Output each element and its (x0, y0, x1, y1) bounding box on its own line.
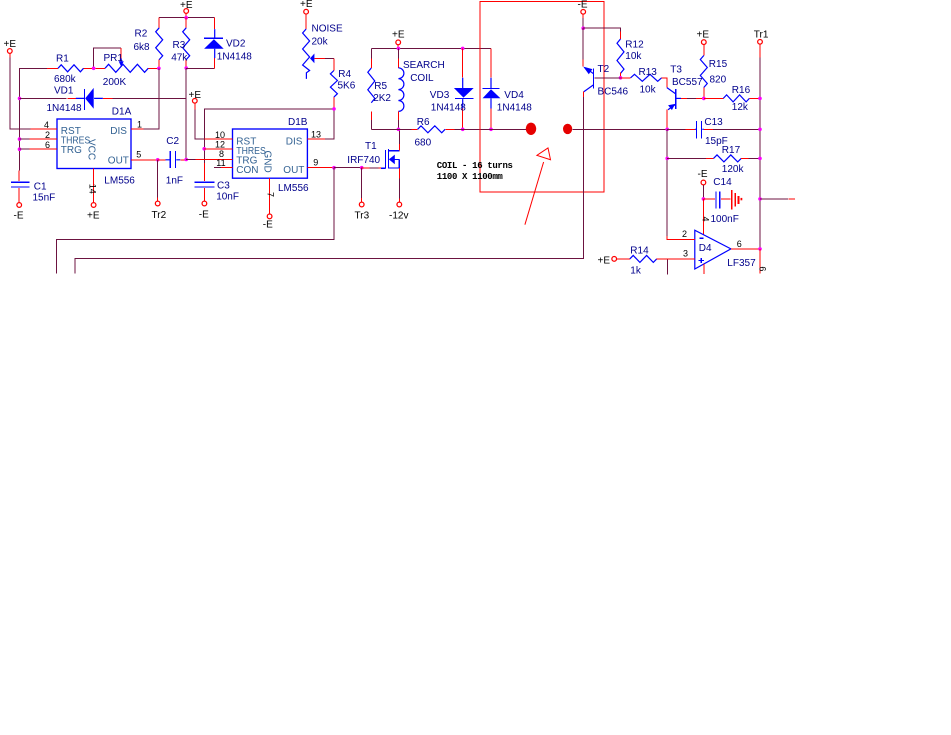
svg-text:T3: T3 (670, 65, 682, 76)
svg-text:+E: +E (4, 39, 17, 50)
wire +E to pin10 corner (195, 109, 204, 139)
wire R3 junction to VD2 (186, 67, 215, 69)
power terminal -E (C3) (199, 201, 209, 220)
wire op-amp V+ stub (703, 264, 705, 274)
pin 12 THRES lead (204, 139, 232, 149)
wire C13 line left (667, 128, 686, 130)
wire T2 collector down to bus2 (75, 92, 583, 274)
pin 6 TRG lead (20, 140, 58, 150)
op-amp D4 LF357 (695, 230, 756, 269)
svg-text:D1B: D1B (288, 117, 308, 128)
svg-text:1N4148: 1N4148 (47, 103, 82, 114)
svg-text:C14: C14 (713, 177, 732, 188)
wire -E to C14 junction (702, 185, 704, 199)
wire R1 left corner down THRES/TRG node (20, 68, 48, 170)
svg-text:+E: +E (300, 0, 313, 10)
svg-text:R13: R13 (639, 67, 658, 78)
pin 7 GND lead (265, 178, 275, 214)
capacitor C13 15pF (686, 117, 760, 147)
svg-text:1: 1 (137, 119, 142, 129)
svg-text:2: 2 (45, 130, 50, 140)
coil terminal dot A (526, 123, 536, 135)
node C14 line/Tr1 junction (758, 197, 762, 201)
node T1 gate/Tr3 junction (360, 166, 364, 170)
svg-text:6: 6 (45, 140, 50, 150)
svg-text:1N4148: 1N4148 (217, 51, 252, 62)
power terminal +E (top middle) (180, 0, 193, 13)
resistor R17 120k (667, 145, 760, 175)
transistor T1 IRF740 (347, 141, 399, 169)
svg-text:VCC: VCC (86, 139, 97, 160)
svg-text:2: 2 (682, 229, 687, 239)
svg-text:VD2: VD2 (226, 39, 246, 50)
wire +E stub to rail (185, 14, 187, 18)
wire T3 node down to R17 (666, 129, 668, 236)
node T3/coil/C13 junction (665, 128, 669, 132)
wire bus1 OUT9 down and left (56, 168, 334, 274)
svg-text:IRF740: IRF740 (347, 155, 380, 166)
svg-text:4: 4 (44, 120, 49, 130)
svg-text:5: 5 (136, 150, 141, 160)
svg-text:680k: 680k (54, 74, 77, 85)
resistor R16 12k (704, 85, 760, 113)
svg-text:DIS: DIS (286, 136, 303, 147)
svg-text:+E: +E (180, 0, 193, 11)
pin 10 RST lead (204, 130, 232, 140)
pin 11 CON lead (214, 158, 232, 168)
svg-text:R12: R12 (625, 39, 644, 50)
svg-text:C2: C2 (166, 136, 179, 147)
wire +E1 to pin4 (10, 58, 31, 130)
svg-text:R14: R14 (630, 245, 649, 256)
svg-text:Tr1: Tr1 (754, 30, 769, 41)
svg-text:OUT: OUT (283, 165, 304, 176)
svg-text:9: 9 (313, 158, 318, 168)
wire T1 source to -12v (398, 168, 400, 202)
diode VD1 1N4148 (20, 86, 187, 114)
terminal Tr3 (355, 202, 370, 221)
node pin12 junction (202, 147, 206, 151)
svg-text:VD4: VD4 (504, 90, 524, 101)
pin 1 DIS lead (131, 68, 159, 129)
svg-text:+E: +E (189, 90, 202, 101)
svg-text:Tr2: Tr2 (152, 210, 167, 221)
pin 8 TRG lead (186, 149, 232, 160)
wire -E to T2 emitter (582, 28, 584, 66)
svg-text:5K6: 5K6 (338, 81, 356, 92)
svg-text:+E: +E (598, 256, 611, 267)
svg-text:20k: 20k (312, 37, 329, 48)
svg-text:14: 14 (87, 184, 97, 194)
resistor R1 (47, 54, 94, 85)
svg-text:D1A: D1A (112, 107, 132, 118)
svg-text:200K: 200K (103, 77, 127, 88)
wire Tr3 red stub (361, 198, 363, 202)
wire pin3 stub down (667, 260, 669, 275)
svg-text:-E: -E (698, 169, 708, 180)
node R2/PR1/DIS junction (157, 67, 161, 71)
svg-text:1N4148: 1N4148 (497, 102, 532, 113)
inductor SEARCH COIL (398, 48, 444, 129)
svg-text:680: 680 (415, 137, 432, 148)
svg-text:-12v: -12v (389, 211, 408, 222)
svg-text:T1: T1 (365, 141, 377, 152)
svg-text:R3: R3 (173, 40, 186, 51)
svg-text:Tr3: Tr3 (355, 211, 370, 222)
IC U1A LM556 box D1A (57, 107, 135, 187)
svg-text:100nF: 100nF (711, 214, 739, 225)
wire +E stub coil (397, 45, 399, 48)
wire +E1 stub (9, 54, 11, 58)
power terminal -E (C14) (698, 169, 708, 185)
wire RST riser to R4/DIS rail (204, 109, 334, 139)
svg-text:T2: T2 (598, 64, 610, 75)
svg-text:TRG: TRG (61, 145, 82, 156)
svg-text:R5: R5 (374, 81, 387, 92)
resistor R5 2K2 (368, 48, 392, 129)
resistor R4 5K6 (330, 59, 355, 109)
coil terminal dot B (563, 124, 572, 134)
wire -E to R12 (583, 28, 620, 31)
svg-text:C1: C1 (34, 182, 47, 193)
resistor R15 820 (700, 45, 727, 99)
potentiometer PR1 (95, 48, 158, 88)
svg-text:COIL - 16 turns: COIL - 16 turns (437, 161, 513, 171)
wire pin12/C3 branch (203, 139, 205, 163)
svg-text:10nF: 10nF (216, 192, 239, 203)
node coil top junction (397, 47, 401, 51)
svg-text:15nF: 15nF (33, 193, 56, 204)
node coil bottom junction (397, 128, 401, 132)
node VD4 bottom junction (489, 128, 493, 132)
capacitor C1 15nF (11, 171, 55, 204)
svg-text:LM556: LM556 (104, 175, 135, 186)
resistor R2 (134, 18, 163, 69)
wire coil top rail (371, 47, 491, 49)
resistor R13 10k (621, 67, 667, 95)
svg-text:BC546: BC546 (598, 87, 629, 98)
power terminal +E (coil rail) (392, 29, 405, 44)
svg-text:6: 6 (737, 239, 742, 249)
diode VD2 1N4148 (204, 18, 252, 69)
svg-text:LM556: LM556 (278, 183, 309, 194)
terminal Tr2 (152, 201, 167, 221)
wire output stub down (758, 249, 768, 274)
svg-text:CON: CON (236, 165, 258, 176)
node R17 left junction (665, 157, 669, 161)
svg-text:1nF: 1nF (166, 175, 183, 186)
power terminal -E (C1) (14, 203, 24, 222)
terminal -12v (389, 202, 408, 221)
power terminal -E (pin 7) (263, 214, 273, 230)
wire T1 drain to coil node (398, 129, 400, 150)
svg-text:SEARCH: SEARCH (403, 60, 445, 71)
diode VD4 1N4148 (482, 48, 532, 129)
svg-text:6: 6 (758, 266, 768, 271)
svg-text:10: 10 (215, 130, 225, 140)
svg-text:VD1: VD1 (54, 86, 74, 97)
node R1/PR1 wiper junction (92, 67, 96, 71)
svg-text:+E: +E (392, 29, 405, 40)
svg-text:D4: D4 (699, 243, 712, 254)
potentiometer NOISE 20k (303, 14, 343, 79)
node C14/pin4 junction (702, 197, 706, 201)
wire coil dot B to C13 node (572, 128, 667, 130)
resistor R3 (171, 18, 190, 68)
node OUT9 junction (332, 166, 336, 170)
svg-text:BC557: BC557 (672, 77, 703, 88)
pin 5 OUT lead (131, 150, 158, 160)
svg-text:-E: -E (578, 0, 588, 11)
node R3 bottom junction (184, 66, 188, 70)
svg-text:4: 4 (700, 217, 710, 222)
transistor T3 BC557 (667, 65, 704, 111)
wire OUT9 to T1 gate node (334, 167, 362, 169)
node VD3 top junction (461, 47, 465, 51)
pin 14 VCC lead (87, 169, 97, 203)
power terminal +E (D1B RST) (189, 90, 202, 103)
node R17/Tr1 junction (758, 157, 762, 161)
coil pointer arrow (525, 148, 551, 225)
capacitor C14 100nF (703, 177, 742, 225)
svg-text:120k: 120k (722, 164, 745, 175)
svg-text:R17: R17 (722, 145, 741, 156)
node R16/Tr1 junction (758, 97, 762, 101)
wire inverting node to pin 2 (667, 229, 695, 240)
pin 4 RST lead (30, 120, 57, 130)
svg-text:COIL: COIL (410, 73, 434, 84)
wire Tr3 branch (361, 168, 363, 198)
svg-text:PR1: PR1 (104, 53, 124, 64)
wire Tr2 branch (157, 160, 159, 198)
power terminal +E (pin 14) (87, 203, 100, 222)
svg-text:R15: R15 (709, 59, 728, 70)
svg-text:R4: R4 (338, 69, 351, 80)
svg-text:12k: 12k (732, 102, 749, 113)
capacitor C3 10nF (195, 163, 239, 203)
power terminal +E (R15) (697, 30, 710, 45)
power terminal -E (T2 emitter) (578, 0, 588, 14)
node VD1 left junction (18, 97, 22, 101)
svg-text:LF357: LF357 (727, 258, 756, 269)
resistor R6 680 (412, 117, 455, 149)
wire -E stub down (582, 14, 584, 18)
svg-text:1100 X 1100mm: 1100 X 1100mm (437, 172, 504, 182)
svg-text:R1: R1 (56, 54, 69, 65)
wire output tap right (760, 198, 795, 200)
svg-text:-E: -E (14, 210, 24, 221)
svg-text:3: 3 (683, 248, 688, 258)
svg-text:820: 820 (710, 74, 727, 85)
svg-text:7: 7 (265, 192, 275, 197)
wire Tr1 vertical (759, 44, 761, 249)
svg-text:VD3: VD3 (430, 90, 450, 101)
svg-text:R2: R2 (135, 29, 148, 40)
svg-text:6k8: 6k8 (134, 42, 151, 53)
pin 13 DIS lead (307, 109, 334, 139)
wire PR1 wiper loop (94, 48, 122, 67)
wire Tr2 red stub (157, 198, 159, 201)
power terminal +E (top left) (4, 39, 17, 53)
resistor R14 1k (617, 245, 695, 276)
node TRG pin6 junction (18, 147, 22, 151)
svg-text:R6: R6 (417, 117, 430, 128)
node THRES pin2 junction (18, 137, 22, 141)
node R15/R16/T3 base junction (702, 97, 706, 101)
svg-text:-E: -E (199, 209, 209, 220)
svg-text:1k: 1k (630, 265, 642, 276)
wire R3/VD1 vertical to C2 node (185, 68, 187, 159)
svg-text:47k: 47k (171, 52, 188, 63)
svg-text:13: 13 (311, 129, 321, 139)
svg-text:1N4148: 1N4148 (431, 102, 466, 113)
capacitor C2 1nF (158, 136, 187, 186)
power terminal +E (R14) (598, 256, 617, 267)
wire +E top rail (159, 17, 215, 19)
node OUT/C2/Tr2 junction (156, 158, 160, 162)
svg-text:-E: -E (263, 219, 273, 230)
svg-text:NOISE: NOISE (312, 23, 343, 34)
svg-text:+E: +E (87, 210, 100, 221)
node R12/R13/T2 base junction (619, 76, 623, 80)
node +E rail junction (184, 16, 188, 20)
diode VD3 1N4148 (430, 48, 474, 129)
wire T3 emitter down (666, 110, 668, 130)
node VD3 bottom junction (461, 128, 465, 132)
svg-text:+E: +E (697, 30, 710, 41)
wire pin4 branch to op-amp (700, 199, 710, 235)
svg-text:OUT: OUT (108, 155, 129, 166)
svg-text:R16: R16 (732, 85, 751, 96)
node R4/DIS rail junction (332, 107, 336, 111)
svg-text:C3: C3 (217, 180, 230, 191)
coil frame red rectangle (480, 2, 604, 192)
svg-text:DIS: DIS (110, 126, 127, 137)
svg-text:GND: GND (262, 151, 273, 173)
wire +E stub down (194, 103, 196, 109)
svg-text:10k: 10k (625, 51, 642, 62)
svg-text:10k: 10k (640, 84, 657, 95)
transistor T2 BC546 (583, 64, 628, 98)
power terminal +E (NOISE) (300, 0, 313, 14)
wire coil bottom rail (371, 128, 526, 130)
IC U1B LM556 box D1B (233, 117, 310, 194)
pin 9 OUT lead (307, 158, 334, 168)
node output junction (758, 247, 762, 251)
wire pin 6 output (731, 239, 760, 249)
node C13/Tr1 junction (758, 128, 762, 132)
node C2/TRG8 junction (184, 158, 188, 162)
svg-text:11: 11 (216, 158, 225, 168)
svg-text:2K2: 2K2 (373, 93, 391, 104)
resistor R12 10k (617, 32, 644, 78)
node -E junction (581, 26, 585, 30)
terminal Tr1 (754, 30, 769, 45)
pin 2 THRES lead (20, 130, 58, 140)
svg-text:C13: C13 (704, 117, 723, 128)
